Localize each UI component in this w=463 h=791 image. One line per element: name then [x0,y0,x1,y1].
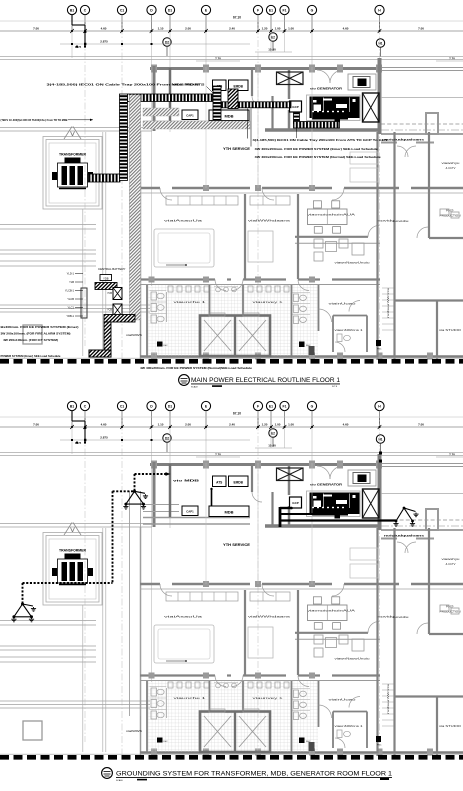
svg-text:N.T.S: N.T.S [332,386,338,388]
svg-text:4W 400x200mm. FOR EE POWER SYS: 4W 400x200mm. FOR EE POWER SYSTEM (Norma… [140,366,252,370]
svg-text:B1: B1 [70,9,74,13]
svg-text:C1: C1 [120,9,124,13]
site boundary lines [0,56,463,58]
svg-text:3W 200x100mm. (FOR FIRE ALARM: 3W 200x100mm. (FOR FIRE ALARM SYSTEM) [1,332,71,336]
svg-text:novidu: novidu [393,219,410,223]
riser shaft walls [129,95,131,320]
svg-text:4.60: 4.60 [101,26,107,30]
plan cut border (dashed) [0,357,463,359]
svg-text:0.375: 0.375 [75,46,82,49]
concrete riser wall hatch (top plan) [130,95,141,320]
svg-text:viawnNauwUnoiu: viawnNauwUnoiu [335,261,370,265]
wire: tray riser to ATS [128,94,214,102]
ground wire: GCP to ground run [280,507,292,509]
svg-text:CENTRAL BATTERY: CENTRAL BATTERY [98,267,126,271]
equipment racks [166,196,238,205]
svg-text:YDB-1: YDB-1 [66,314,74,318]
door swings [317,70,330,83]
svg-text:FHC: FHC [164,345,169,347]
svg-text:viaiAsaoUa: viaiAsaoUa [164,219,203,223]
svg-text:15.40: 15.40 [268,48,276,52]
svg-text:1.10: 1.10 [158,26,164,30]
EMDB panel [229,80,249,91]
earth pit triangle (MDB) [123,490,148,509]
ATS panel [213,80,227,91]
capacitor bank CAP1 [182,110,198,120]
accessible WC room [332,316,334,353]
svg-text:vialWWh: vialWWh [126,333,143,337]
title stamp 1 [179,375,190,386]
ground wire: west drop [22,583,24,604]
svg-text:YLCB: YLCB [67,297,74,301]
title stamp 2 [102,768,113,779]
svg-text:G: G [311,9,314,13]
MDB room walls [169,68,172,121]
svg-text:MDB: MDB [224,114,233,119]
svg-text:vio GENERATOR: vio GENERATOR [310,86,343,90]
svg-text:YLB: YLB [69,280,74,284]
svg-text:YTH SERVICE: YTH SERVICE [223,147,250,151]
svg-text:(TBCV 1C-300(f)x4 OR CR Tb400(: (TBCV 1C-300(f)x4 OR CR Tb400(CAL) From … [1,118,68,122]
svg-text:2.00: 2.00 [185,26,191,30]
furniture [308,209,348,225]
svg-text:YLD-1: YLD-1 [67,272,75,276]
floor duct box [89,350,111,357]
MDB switchboard [209,110,249,121]
svg-text:1.20: 1.20 [262,26,268,30]
ground wire: triangle west to riser drop [113,490,135,492]
svg-text:67.10: 67.10 [233,16,241,20]
svg-text:TRANSFORMER: TRANSFORMER [59,153,87,157]
generator set [307,95,361,121]
tiled bathroom floor [147,285,318,356]
svg-text:viaunNWnns 1: viaunNWnns 1 [335,328,364,332]
wire: tray below ATS [213,86,221,121]
generator muffler box [348,74,376,90]
svg-text:viavnoiushoinAUA: viavnoiushoinAUA [307,213,357,217]
secondary grid bubbles [163,38,171,46]
generator room walls [378,58,382,134]
wire: vertical riser tray [120,94,128,181]
dimension line with figures [0,20,463,22]
svg-text:4W 200x100mm. (FOR ICT SYSTEM): 4W 200x100mm. (FOR ICT SYSTEM) [3,338,58,342]
transformer enclosure [43,137,102,210]
earth pit triangle (transformer) [11,603,36,622]
svg-text:YCB: YCB [107,309,112,312]
svg-text:4.60: 4.60 [343,26,349,30]
ground bus in MDB room [211,489,213,506]
busduct riser YCB 1 [113,288,122,300]
svg-text:7.00: 7.00 [33,26,39,30]
YDB panel [100,275,112,281]
ground wire: MDB wall connection with arrow [135,473,167,475]
wire: tray MDB to GCP [221,102,291,108]
svg-text:3(4-185,500) IEC01 ON Cable Tr: 3(4-185,500) IEC01 ON Cable Tray 200x100… [47,83,205,87]
sanitary fixtures [168,286,173,292]
svg-text:F1: F1 [283,9,287,13]
svg-text:1.00: 1.00 [275,26,281,30]
svg-text:SCALE: SCALE [191,385,198,388]
svg-text:PRODUCTION: PRODUCTION [440,214,461,218]
svg-text:7.70: 7.70 [215,57,221,61]
electrical room label with leader [185,264,187,266]
fire hose cabinet FHC [157,342,163,347]
wire: tray to generator [294,122,340,129]
ground wire: down to earth pit triangle [134,474,136,491]
ramp rungs [382,287,394,289]
svg-text:YDB: YDB [103,276,109,280]
svg-text:& CCTV: & CCTV [446,166,456,170]
svg-text:Bx400mm. FOR EE POWER SYSTEM (: Bx400mm. FOR EE POWER SYSTEM (Emer) [1,325,79,329]
wire: tray GCP down [294,112,300,124]
svg-text:vialWWhdaans: vialWWhdaans [248,219,291,223]
EMDB riser panel (hatched) [228,89,238,109]
wire: riser turn to floor duct [104,315,135,323]
svg-text:7.00: 7.00 [418,26,424,30]
svg-text:GCP: GCP [292,105,299,109]
svg-text:1.00: 1.00 [288,26,294,30]
svg-text:YLC1: YLC1 [68,306,75,310]
toilet partition walls [146,285,148,358]
ground wire: drop to transformer [112,491,114,583]
svg-text:E1: E1 [269,9,273,13]
interior partition walls [140,187,160,189]
generator exhaust louvre [363,93,380,122]
wire: tray transformer to riser [88,174,120,182]
svg-text:noiuiudqualoans: noiuiudqualoans [384,137,425,141]
svg-text:FHC: FHC [377,349,382,351]
svg-text:CAP1: CAP1 [186,114,194,118]
svg-text:POWER SYSTEM (Emer) SEE.Load S: POWER SYSTEM (Emer) SEE.Load Schedule [1,354,61,358]
svg-text:7.70: 7.70 [449,57,455,61]
grid centre lines [84,15,86,346]
ground junction dots on wall H [379,452,382,455]
svg-text:viawshyu: viawshyu [442,161,461,165]
svg-text:EMDB: EMDB [234,85,244,89]
lounge set [314,239,323,248]
svg-text:D1: D1 [168,9,172,13]
svg-text:3(4-185,500) IEC01 ON Cable Tr: 3(4-185,500) IEC01 ON Cable Tray 200x100… [253,138,388,142]
svg-text:H1: H1 [378,41,382,45]
svg-text:3W 400x200mm. FOR EE POWER SYS: 3W 400x200mm. FOR EE POWER SYSTEM (Norma… [255,155,382,159]
svg-text:YCB: YCB [107,292,112,295]
svg-text:F: F [257,9,259,13]
battery panel (hatched) [95,283,117,290]
lift shafts [200,316,270,357]
building outer walls [150,67,382,70]
ground run under generator [280,513,340,515]
svg-text:nolsanWnns: nolsanWnns [386,287,390,318]
svg-text:3W 400x200mm. FOR EE POWER SYS: 3W 400x200mm. FOR EE POWER SYSTEM (Emer)… [255,147,379,151]
busduct riser YCB 2 [113,304,122,316]
distribution panel column [81,288,87,318]
svg-text:via STUDIO: via STUDIO [439,328,462,332]
earth pit triangle (generator) [393,507,418,527]
svg-text:2.40: 2.40 [229,26,235,30]
svg-text:2.875: 2.875 [100,40,108,44]
ground wire: through transformer [23,582,113,584]
transformer TR [58,163,88,187]
svg-text:FHC: FHC [306,345,311,347]
svg-text:MAIN POWER ELECTRICAL ROUTLINE: MAIN POWER ELECTRICAL ROUTLINE FLOOR 1 [191,377,341,384]
GCP panel [290,101,302,112]
work benches [154,229,214,267]
generator intake louvre [277,72,304,85]
column grid bubbles row [67,5,76,14]
svg-text:GROUNDING SYSTEM FOR TRANSFORM: GROUNDING SYSTEM FOR TRANSFORMER, MDB, G… [116,770,393,777]
svg-text:YLCB-1: YLCB-1 [65,289,75,293]
svg-text:SCALE: SCALE [116,779,123,782]
svg-text:E2: E2 [271,35,275,39]
